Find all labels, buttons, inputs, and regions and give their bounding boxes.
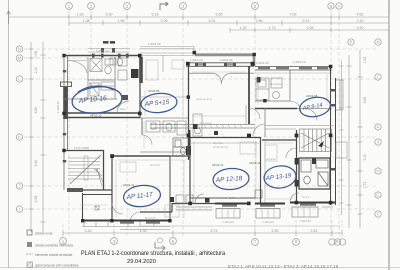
- left grid bubbles: [16, 46, 22, 212]
- svg-text:3.65: 3.65: [363, 97, 367, 104]
- svg-text:K: K: [18, 135, 21, 140]
- interior faint dimension chains: [80, 70, 327, 218]
- svg-text:1.20/1.20: 1.20/1.20: [293, 60, 306, 64]
- right stair bump: [300, 129, 332, 152]
- right terrace mid: [336, 142, 347, 158]
- exterior wall left double: [64, 55, 68, 190]
- dark shaft block: [131, 69, 139, 78]
- north arrow mark: [160, 2, 168, 10]
- room AP13 walls: [262, 130, 297, 203]
- right bay lines: [336, 80, 343, 110]
- svg-text:1.20/1.20: 1.20/1.20: [190, 58, 203, 62]
- door arcs right rooms: [286, 148, 296, 158]
- svg-text:AP.02-10: AP.02-10: [90, 114, 102, 118]
- svg-text:N: N: [376, 40, 379, 45]
- exterior wall right (double with piers): [331, 66, 336, 205]
- top grid bubbles: [66, 3, 343, 10]
- door arcs central: [249, 108, 260, 119]
- svg-text:1.20/1.20: 1.20/1.20: [220, 58, 233, 62]
- svg-text:17x17.6/28: 17x17.6/28: [74, 146, 89, 150]
- svg-text:G: G: [376, 193, 379, 198]
- bathroom fixtures top-left: [90, 58, 127, 96]
- left wall piers: [63, 70, 66, 162]
- small dark fixture: [122, 95, 128, 100]
- blue ellipse AP 5+15: [140, 92, 178, 114]
- svg-text:zidarie noua: zidarie noua: [35, 232, 53, 236]
- AP12 lower wall: [190, 197, 256, 199]
- right wall piers: [330, 89, 336, 171]
- top dimension line 2: [69, 21, 389, 26]
- vertical wall x112 lower: [111, 156, 113, 222]
- left wall jog: [61, 82, 72, 87]
- svg-text:7.03: 7.03: [290, 13, 297, 17]
- svg-text:1.05/2.10: 1.05/2.10: [96, 49, 109, 53]
- svg-text:baie: baie: [120, 107, 126, 111]
- svg-text:S=12.30 mp: S=12.30 mp: [225, 196, 241, 200]
- legend item 4: [27, 262, 33, 268]
- svg-text:P: P: [350, 40, 353, 45]
- dark blocks central: [186, 124, 218, 155]
- balcony door arch centre: [213, 74, 230, 85]
- right grid bubbles: [348, 39, 381, 217]
- svg-text:4.90: 4.90: [34, 160, 38, 167]
- door arc lower-left: [112, 203, 123, 214]
- bottom window sills centre: [216, 207, 333, 209]
- dim line end arrow: [7, 11, 11, 24]
- top-left window bay: [88, 49, 130, 53]
- window labels above: [96, 42, 306, 65]
- thick grey parapet corner: [253, 54, 256, 66]
- thick grey parapet top: [195, 53, 255, 56]
- lower boundary lines: [140, 225, 340, 227]
- corridor right band: [265, 126, 333, 130]
- bottom leader ticks: [63, 220, 342, 238]
- svg-text:goluri propuse prin consolidar: goluri propuse prin consolidare: [35, 264, 79, 268]
- bottom wall left part of centre: [140, 203, 215, 212]
- window wall top-right: [255, 67, 332, 71]
- central sanitary cluster: [146, 114, 202, 136]
- top dimension line 1: [9, 15, 390, 20]
- svg-text:J: J: [377, 140, 379, 145]
- svg-text:2.93: 2.93: [272, 229, 279, 233]
- svg-text:1.10/2.10: 1.10/2.10: [56, 101, 60, 113]
- svg-text:1.40x2.20: 1.40x2.20: [222, 220, 234, 224]
- corridor band: [140, 118, 255, 152]
- svg-text:zidarie existenta mentinuta: zidarie existenta mentinuta: [35, 244, 73, 248]
- interior wall vertical x188: [188, 64, 190, 160]
- svg-text:4.62: 4.62: [357, 13, 364, 17]
- svg-text:dormitor: dormitor: [150, 163, 160, 167]
- svg-text:AP.02-12: AP.02-12: [212, 163, 224, 167]
- svg-text:S=4.2: S=4.2: [302, 195, 310, 199]
- lower-left room walls: [83, 193, 113, 222]
- svg-text:5.18: 5.18: [152, 13, 159, 17]
- svg-text:2.01: 2.01: [303, 19, 310, 23]
- svg-text:J: J: [18, 184, 20, 189]
- room AP12-18 walls: [190, 137, 261, 203]
- balcony labels: [222, 219, 311, 224]
- paper bottom edge line: [0, 267, 400, 269]
- exterior wall top-left block top: [64, 55, 141, 57]
- right room bottom wall: [255, 108, 297, 110]
- blue ellipse AP 13-19: [263, 164, 297, 189]
- inner right dimension line: [340, 60, 344, 215]
- stair enclosure walls: [64, 150, 112, 190]
- door arc top-left room: [117, 101, 129, 113]
- bottom dimension line: [63, 231, 342, 236]
- svg-text:1.40x2.60: 1.40x2.60: [299, 219, 311, 223]
- svg-text:1.50/1.20: 1.50/1.20: [148, 42, 161, 46]
- mid-left room divider light: [140, 55, 188, 97]
- blue ellipse AP 11-17: [123, 184, 162, 209]
- svg-text:camera: camera: [266, 157, 276, 161]
- door arc right room: [290, 101, 301, 112]
- furniture hints: [120, 60, 277, 217]
- svg-text:1.38: 1.38: [83, 19, 90, 23]
- svg-text:AP.02-05: AP.02-05: [148, 89, 160, 93]
- right dimension vertical line 1: [358, 50, 363, 228]
- window spec text blocks: [103, 41, 115, 44]
- window wall top-centre: [186, 63, 254, 67]
- bottom windows: [222, 204, 316, 207]
- svg-text:1.55: 1.55: [118, 19, 125, 23]
- svg-text:2.10: 2.10: [34, 67, 38, 74]
- lower-left room mark: [95, 206, 99, 210]
- stair bottom hatched wall: [67, 188, 83, 192]
- bottom-left exterior wall: [82, 220, 170, 222]
- svg-text:I: I: [19, 207, 20, 212]
- svg-text:0.63: 0.63: [34, 51, 38, 58]
- paper left edge line: [8, 0, 10, 268]
- grid axis dashed horizontals: [24, 49, 376, 209]
- bottom exterior wall centre-right: [215, 203, 335, 204]
- svg-text:2.10: 2.10: [363, 154, 367, 161]
- svg-text:1.93: 1.93: [77, 13, 84, 17]
- bottom section mark: [155, 242, 165, 251]
- blue ellipse AP 10-16: [71, 84, 123, 115]
- interior wall: bath partition: [64, 57, 117, 99]
- svg-text:2.01: 2.01: [209, 19, 216, 23]
- blue ellipse AP 8-14: [298, 95, 332, 119]
- svg-text:hol acces: hol acces: [200, 121, 212, 125]
- hall wall x142: [141, 118, 143, 135]
- svg-text:bucatarie: bucatarie: [270, 82, 282, 86]
- svg-text:1.25: 1.25: [240, 26, 247, 30]
- window blocks top-right: [258, 67, 328, 69]
- balconies bottom: [216, 207, 318, 218]
- top dimension labels row1: [77, 13, 364, 17]
- room AP11-17 top wall: [112, 155, 188, 157]
- dark blocks right: [295, 158, 316, 187]
- tiny room labels: [120, 82, 310, 220]
- closet wall x170: [169, 156, 171, 221]
- svg-text:2.05: 2.05: [307, 26, 314, 30]
- entrance dark blocks: [170, 197, 210, 203]
- printed apartment labels: [90, 89, 318, 187]
- columns: [62, 51, 332, 223]
- svg-text:H: H: [376, 169, 379, 174]
- left wall dark segment: [63, 87, 68, 119]
- svg-text:AP.02-11: AP.02-11: [123, 183, 135, 187]
- svg-text:5.80: 5.80: [34, 107, 38, 114]
- svg-text:S=14.05: S=14.05: [145, 216, 156, 220]
- right bathroom cluster walls: [299, 158, 330, 189]
- svg-text:M: M: [18, 56, 22, 61]
- stair treads: [68, 158, 103, 186]
- window blocks top-centre: [195, 63, 236, 67]
- svg-text:1.93: 1.93: [363, 57, 367, 64]
- left dimension vertical line 1: [29, 42, 34, 232]
- entry door arc top-left: [68, 61, 88, 74]
- svg-text:5.73: 5.73: [211, 229, 218, 233]
- interior wall vertical x249 (dark): [248, 66, 250, 124]
- right room inner partition: [255, 70, 290, 137]
- right dimension vertical line 2: [347, 55, 352, 228]
- svg-text:elemente zidarie demolate: elemente zidarie demolate: [35, 253, 73, 257]
- svg-text:2.05: 2.05: [161, 19, 168, 23]
- svg-text:6.65: 6.65: [216, 13, 223, 17]
- svg-text:N: N: [18, 47, 21, 52]
- svg-text:1.86: 1.86: [256, 19, 263, 23]
- svg-text:K: K: [377, 125, 380, 130]
- svg-text:S=12.40 mp: S=12.40 mp: [213, 145, 229, 149]
- interior wall vertical x140: [139, 55, 141, 118]
- svg-text:AP.02-13: AP.02-13: [249, 161, 261, 165]
- svg-text:camera de zi: camera de zi: [196, 97, 212, 101]
- grid axis dashed verticals: [69, 10, 339, 238]
- stair mid rail: [84, 156, 88, 180]
- svg-text:2.43: 2.43: [357, 19, 364, 23]
- svg-text:1.40x2.20: 1.40x2.20: [262, 220, 274, 224]
- left dimension vertical line 2: [41, 42, 46, 232]
- top dimension labels row2: [83, 19, 364, 23]
- balcony upper edge double: [140, 47, 196, 56]
- bath cluster left of AP12: [173, 138, 188, 156]
- entrance details centre-bottom: [176, 194, 212, 210]
- blue ellipse AP 12-18: [212, 167, 249, 190]
- svg-text:3.30: 3.30: [106, 13, 113, 17]
- mid divider light lines AP12: [170, 143, 260, 156]
- paper right edge line: [388, 0, 390, 270]
- svg-text:2.28: 2.28: [34, 196, 38, 203]
- legend item 2: [27, 242, 32, 247]
- svg-text:F: F: [377, 212, 380, 217]
- svg-text:2.90: 2.90: [357, 26, 364, 30]
- right bathroom cluster: [301, 160, 328, 186]
- dark wall x188 upper: [189, 130, 191, 158]
- svg-text:1.73: 1.73: [363, 182, 367, 189]
- svg-text:1.20/1.20: 1.20/1.20: [256, 61, 269, 65]
- svg-text:ETAJ 1: AP.9,10,11,12,13 - ETA: ETAJ 1: AP.9,10,11,12,13 - ETAJ 2: AP.14…: [228, 264, 339, 269]
- svg-text:1.73: 1.73: [269, 26, 276, 30]
- bottom-left windows: [120, 222, 160, 224]
- svg-text:29.04.2020: 29.04.2020: [127, 259, 156, 265]
- svg-text:3.30: 3.30: [85, 229, 92, 233]
- svg-text:PLAN ETAJ 1-2-coordonare struc: PLAN ETAJ 1-2-coordonare structura, inst…: [81, 251, 226, 257]
- legend item 3: [26, 253, 33, 255]
- bottom grid bubbles: [60, 238, 346, 246]
- stair up arrow diagonal: [70, 155, 101, 184]
- corridor hatch ticks: [198, 125, 242, 129]
- interior wall: top-left block bottom double: [64, 113, 140, 118]
- svg-text:2.52: 2.52: [311, 229, 318, 233]
- legend item 1: [27, 230, 32, 235]
- top right dimension chain: [230, 28, 389, 33]
- bottom-left window sill lines: [82, 221, 170, 230]
- kitchen fixtures right room: [256, 78, 282, 100]
